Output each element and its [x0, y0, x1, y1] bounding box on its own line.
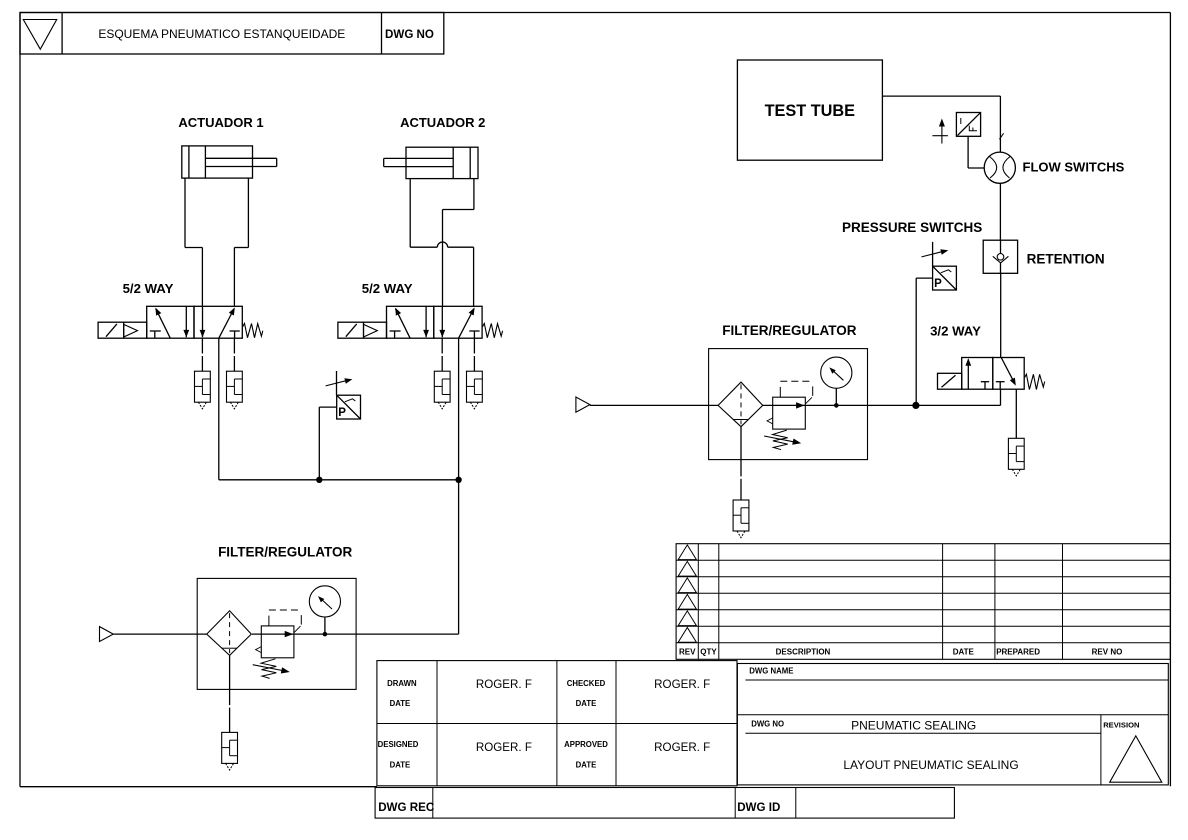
svg-text:REV NO: REV NO [1092, 648, 1123, 657]
header revision triangle [23, 20, 56, 50]
wire FR1 inlet [113, 633, 206, 635]
revision triangle row 6 [678, 628, 696, 643]
border frame top [20, 12, 1170, 14]
wire gauge FR2 stem [835, 388, 837, 405]
node junction PS2 main line [912, 402, 919, 409]
svg-text:P: P [934, 278, 942, 290]
regulator FR1 pilot dashed box [269, 610, 301, 632]
pressure switch PS1 box [337, 395, 361, 419]
svg-text:ROGER. F: ROGER. F [654, 678, 710, 691]
svg-text:FLOW SWITCHS: FLOW SWITCHS [1023, 159, 1125, 174]
valve V1 diagonal arrow left box [155, 308, 170, 339]
wire flow tick [999, 133, 1003, 139]
pressure switch PS1 stub [336, 371, 338, 395]
svg-text:PREPARED: PREPARED [996, 648, 1040, 657]
valve 3/2 blocked port T left box [981, 382, 989, 390]
border frame bottom [20, 786, 377, 788]
wire cylinder1 to valve1 port2 [233, 248, 235, 307]
cylinder ACTUADOR 2 [384, 147, 478, 178]
title header box [20, 13, 444, 55]
svg-text:DWG NO: DWG NO [751, 719, 784, 728]
svg-text:QTY: QTY [700, 648, 717, 657]
wire FR1 main line [252, 633, 459, 635]
filter FR1 diamond [207, 611, 252, 656]
svg-text:DRAWN: DRAWN [387, 679, 417, 688]
wire rail down to regulator output [458, 480, 460, 634]
wire FR2 inlet [590, 404, 718, 406]
svg-text:RETENTION: RETENTION [1027, 252, 1105, 267]
pressure switch PS2 box [933, 266, 957, 290]
valve 3/2 return spring [1025, 374, 1045, 389]
valve V1 return spring [243, 323, 263, 337]
valve V1 down arrow left box [183, 306, 189, 337]
valve 3/2 blocked port T right box [996, 382, 1005, 390]
regulator FR2 box [773, 397, 806, 429]
filter FR2 diamond [718, 382, 763, 427]
revision triangle row 3 [678, 578, 696, 593]
wire FR2 main line to 3/2 valve [762, 389, 1000, 405]
svg-text:ROGER. F: ROGER. F [476, 678, 532, 691]
regulator FR2 flow arrow [796, 402, 805, 408]
svg-text:3/2 WAY: 3/2 WAY [930, 323, 981, 338]
title block signatures box [377, 661, 737, 786]
revision triangle row 5 [678, 611, 696, 626]
wire filter FR2 drain [740, 427, 742, 500]
pressure switch PS1 adjust arrow [326, 378, 353, 386]
valve 3/2 pilot box [938, 373, 962, 389]
svg-text:DWG ID: DWG ID [737, 801, 780, 814]
muffler V2 left exhaust [434, 371, 450, 409]
wire V2 supply down [458, 338, 460, 480]
wire filter FR1 drain [229, 655, 231, 732]
revision cell divider [1100, 715, 1102, 785]
wire cylinder2 pedestal [410, 179, 474, 248]
wire flow switch to retention [999, 183, 1001, 240]
filter/regulator FR1 enclosure [197, 578, 356, 689]
wire cylinder1 pedestal [185, 178, 248, 247]
regulator FR2 adjust spring [773, 430, 788, 450]
supply source triangle FR2 [576, 397, 590, 412]
valve 3/2 body [962, 358, 1024, 390]
muffler V1 left exhaust [195, 371, 211, 409]
border frame left [19, 13, 21, 787]
svg-text:ROGER. F: ROGER. F [654, 741, 710, 754]
pressure gauge FR2 [821, 357, 852, 388]
valve V2 down arrow right box [439, 306, 445, 337]
muffler filter FR2 drain [733, 500, 749, 538]
valve 3/2 up arrow left box [965, 358, 971, 389]
valve V1 blocked port T right box [230, 331, 240, 338]
wire V1 supply down [218, 338, 220, 480]
wire test tube to flow switch [882, 96, 1000, 152]
svg-text:DATE: DATE [953, 648, 975, 657]
wire retention to 3/2 valve [1000, 273, 1002, 357]
valve V2 pilot box [338, 322, 387, 338]
muffler V1 right exhaust [227, 371, 243, 409]
svg-text:TEST TUBE: TEST TUBE [765, 102, 856, 120]
svg-text:APPROVED: APPROVED [564, 740, 608, 749]
pressure switch PS2 stub [932, 242, 934, 266]
valve 5/2 V2 body [387, 306, 483, 338]
svg-text:PNEUMATIC SEALING: PNEUMATIC SEALING [851, 719, 976, 733]
pressure switch PS1 contact [345, 399, 356, 402]
svg-text:REVISION: REVISION [1103, 721, 1139, 730]
svg-text:REV: REV [679, 648, 696, 657]
svg-text:DATE: DATE [390, 699, 411, 708]
svg-text:DWG NO: DWG NO [385, 28, 434, 41]
regulator FR1 box [261, 626, 294, 658]
pressure switch PS2 contact [941, 270, 952, 273]
regulator FR1 adjust arrow [253, 665, 290, 674]
wire supply rail horizontal [219, 479, 459, 481]
border frame right [1169, 13, 1171, 787]
regulator FR2 adjust arrow [764, 436, 801, 445]
flow sensor box [956, 113, 980, 137]
valve V2 down arrow left box [423, 306, 429, 337]
wire cylinder2 to valve2 port4 [442, 210, 444, 307]
node gauge FR1 junction [323, 632, 328, 637]
wire cylinder1 to valve1 port4 [201, 248, 203, 307]
svg-text:FILTER/REGULATOR: FILTER/REGULATOR [218, 544, 352, 559]
wire PS2 to main line junction [916, 278, 932, 405]
node junction PS1 on rail [316, 477, 322, 483]
retention seat [993, 256, 1009, 263]
filter/regulator FR2 enclosure [709, 349, 868, 460]
dwg rec strip [375, 788, 954, 819]
wire V1 exhaust right [233, 338, 235, 371]
retention check valve box [983, 240, 1017, 273]
svg-text:LAYOUT PNEUMATIC SEALING: LAYOUT PNEUMATIC SEALING [843, 758, 1018, 772]
wire V2 exhaust left [441, 338, 443, 371]
supply source triangle FR1 [100, 627, 114, 642]
valve 3/2 diagonal arrow right box [1001, 358, 1016, 386]
pressure gauge FR1 [309, 586, 340, 617]
svg-text:P: P [338, 407, 346, 419]
svg-text:FILTER/REGULATOR: FILTER/REGULATOR [722, 323, 856, 338]
svg-text:5/2 WAY: 5/2 WAY [362, 281, 413, 296]
svg-text:CHECKED: CHECKED [567, 679, 606, 688]
wire gauge FR1 stem [324, 617, 326, 634]
pressure switch PS2 adjust arrow [922, 249, 949, 257]
regulator FR2 pilot dashed box [780, 381, 812, 403]
svg-text:ESQUEMA PNEUMATICO ESTANQUEIDA: ESQUEMA PNEUMATICO ESTANQUEIDADE [98, 27, 345, 41]
valve 5/2 V1 body [147, 306, 243, 338]
revision table [676, 544, 1170, 660]
valve V2 diagonal arrow right box [459, 308, 475, 339]
valve V1 pilot triangle [124, 324, 138, 337]
valve V1 pilot box [98, 322, 147, 338]
svg-text:DESIGNED: DESIGNED [378, 740, 419, 749]
svg-text:DWG NAME: DWG NAME [749, 666, 793, 675]
cylinder ACTUADOR 1 [182, 146, 277, 178]
svg-text:DATE: DATE [390, 761, 411, 770]
revision triangle row 2 [678, 561, 696, 576]
node gauge FR2 junction [834, 403, 839, 408]
TEST TUBE box [737, 60, 882, 160]
regulator FR1 adjust spring [261, 659, 276, 679]
svg-text:5/2 WAY: 5/2 WAY [123, 281, 174, 296]
svg-text:DATE: DATE [576, 699, 597, 708]
wire flow sensor to flow switch [968, 136, 984, 168]
svg-text:ROGER. F: ROGER. F [476, 741, 532, 754]
revision triangle row 4 [678, 594, 696, 609]
svg-text:DESCRIPTION: DESCRIPTION [776, 648, 831, 657]
valve V2 blocked port T left box [390, 331, 401, 338]
revision cell triangle [1110, 736, 1162, 782]
dwg name underline [745, 679, 1168, 681]
valve V2 blocked port T right box [469, 331, 479, 338]
regulator FR1 relief nozzle [256, 647, 262, 653]
valve V2 diagonal arrow left box [395, 308, 410, 339]
regulator FR1 flow arrow [285, 631, 294, 637]
svg-text:DATE: DATE [576, 761, 597, 770]
muffler 3/2 exhaust [1008, 438, 1024, 476]
valve V2 return spring [483, 323, 503, 337]
wire crossover hop [437, 242, 447, 247]
svg-text:ACTUADOR 2: ACTUADOR 2 [400, 115, 485, 130]
flow sensor glyph [961, 118, 977, 131]
flow switch circle [984, 152, 1015, 183]
wire V2 exhaust right [473, 338, 475, 371]
dwg no underline [745, 732, 1101, 734]
wire V1 exhaust left [201, 338, 203, 371]
node junction rail-regulator [455, 477, 461, 483]
flow sensor adjust arrow [932, 119, 948, 144]
muffler V2 right exhaust [467, 371, 483, 409]
regulator FR2 relief nozzle [767, 418, 773, 424]
valve V2 pilot triangle [364, 324, 378, 337]
svg-text:DWG REC: DWG REC [378, 801, 435, 814]
valve V1 diagonal arrow right box [219, 308, 235, 339]
wire PS1 to rail junction [319, 407, 336, 480]
svg-text:PRESSURE SWITCHS: PRESSURE SWITCHS [842, 220, 982, 235]
valve V1 down arrow right box [200, 306, 206, 337]
dwg name box [737, 664, 1168, 785]
retention ball [997, 253, 1004, 260]
revision triangle row 1 [678, 545, 696, 560]
valve V1 blocked port T left box [150, 331, 161, 338]
wire cylinder2 to valve2 port2 [473, 247, 475, 306]
muffler filter FR1 drain [222, 732, 238, 770]
wire 3/2 exhaust [1015, 389, 1017, 438]
svg-text:ACTUADOR 1: ACTUADOR 1 [178, 115, 263, 130]
